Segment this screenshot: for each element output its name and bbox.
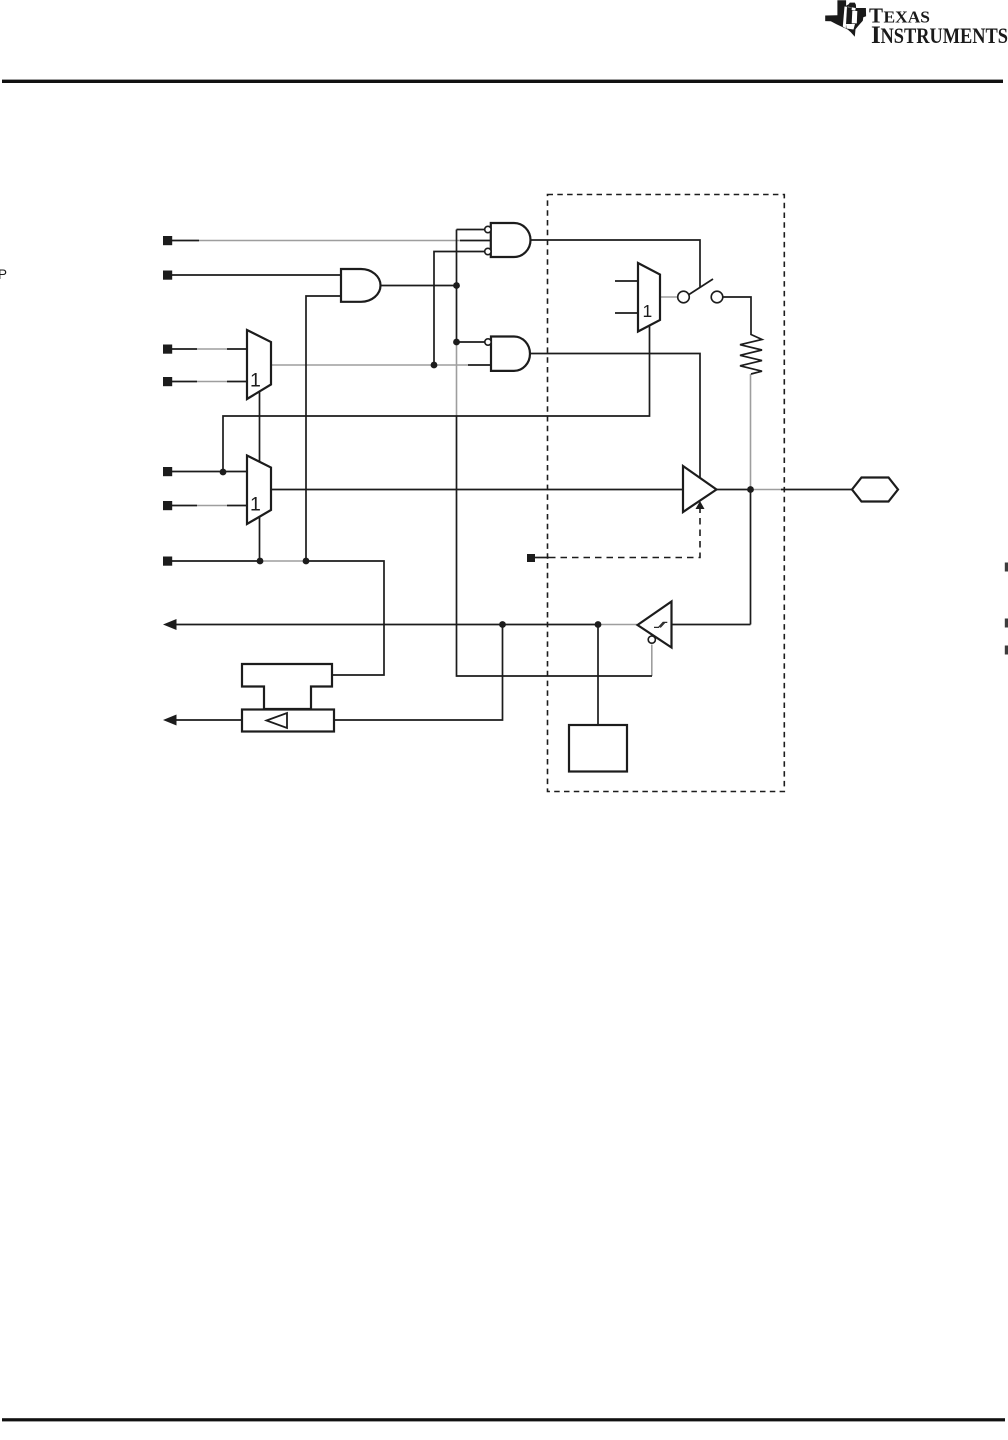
svg-text:I: I: [871, 22, 881, 49]
svg-text:NSTRUMENTS: NSTRUMENTS: [881, 23, 1008, 48]
svg-text:1: 1: [250, 494, 261, 516]
svg-text:P: P: [0, 267, 7, 282]
svg-text:1: 1: [643, 301, 653, 321]
svg-text:1: 1: [250, 370, 261, 392]
